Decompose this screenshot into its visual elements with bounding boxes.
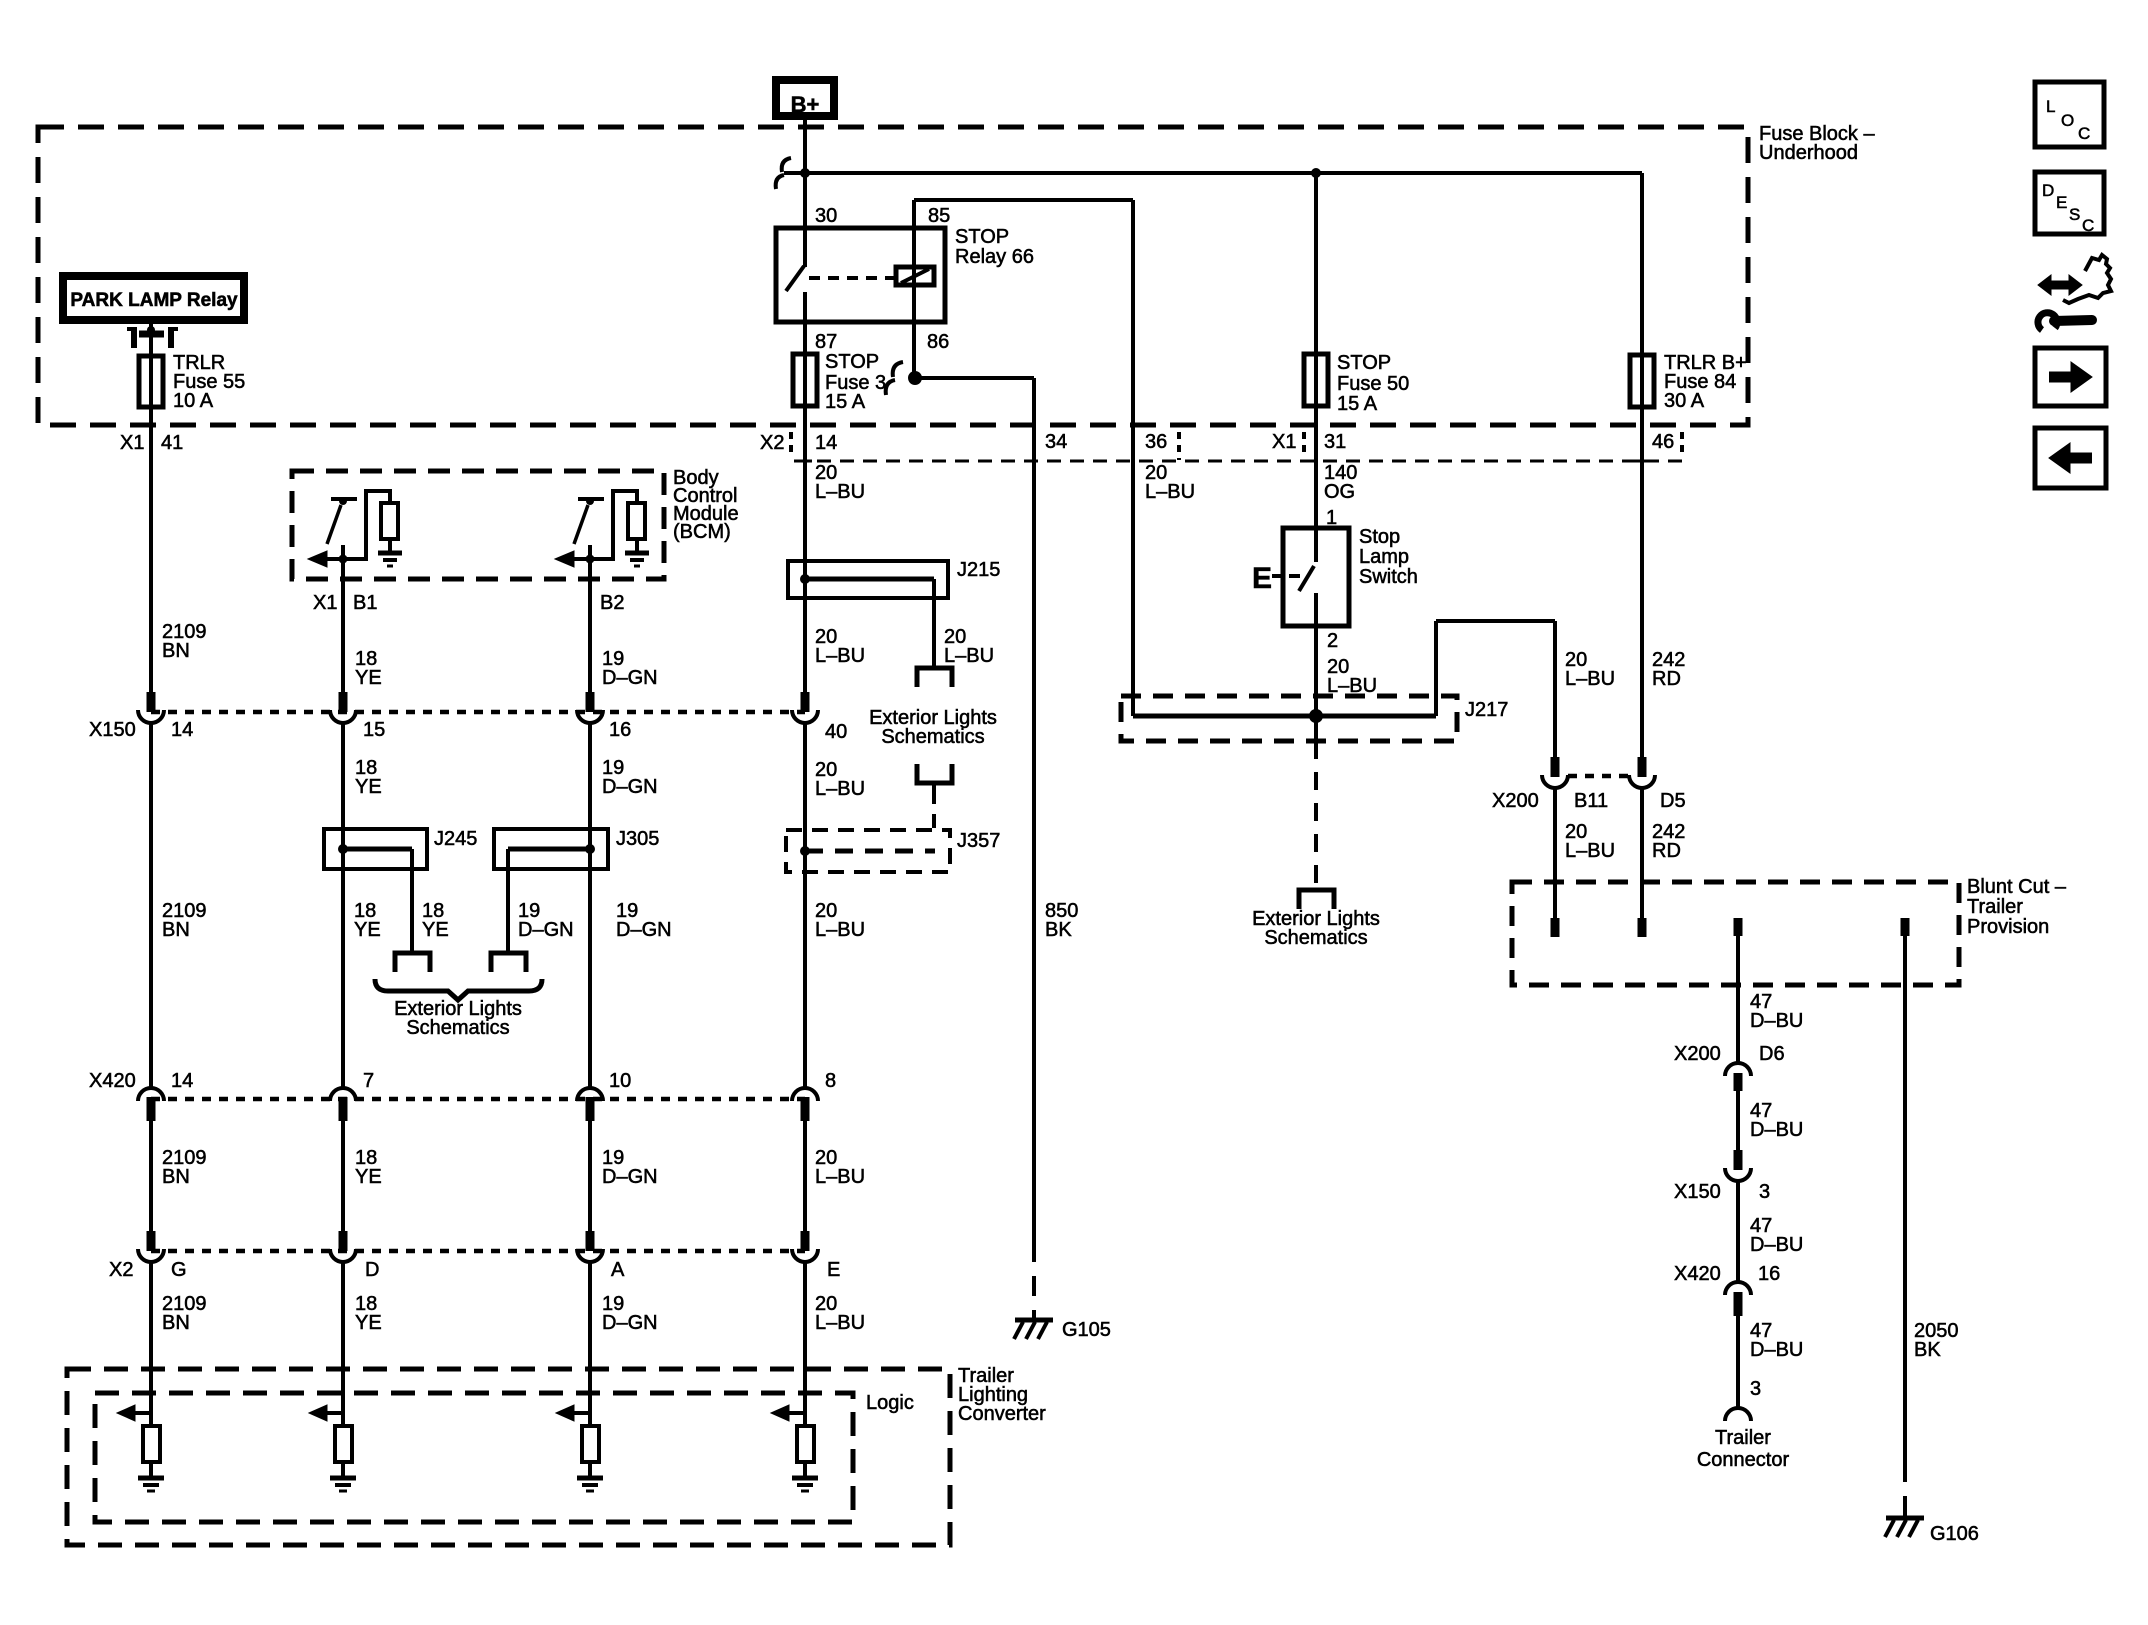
svg-text:L–BU: L–BU xyxy=(1145,481,1195,503)
svg-text:D–GN: D–GN xyxy=(602,667,658,689)
svg-text:YE: YE xyxy=(355,1166,382,1188)
svg-text:Converter: Converter xyxy=(958,1403,1046,1425)
svg-text:B+: B+ xyxy=(791,92,820,117)
svg-text:D–BU: D–BU xyxy=(1750,1010,1803,1032)
svg-text:G: G xyxy=(171,1259,187,1281)
svg-text:L–BU: L–BU xyxy=(1327,675,1377,697)
svg-text:BK: BK xyxy=(1045,919,1072,941)
svg-text:30: 30 xyxy=(815,205,837,227)
svg-text:1: 1 xyxy=(1326,507,1337,529)
svg-text:J217: J217 xyxy=(1465,699,1508,721)
svg-text:L: L xyxy=(2046,97,2055,116)
svg-text:B2: B2 xyxy=(600,592,624,614)
svg-text:Fuse 50: Fuse 50 xyxy=(1337,373,1409,395)
svg-text:X1: X1 xyxy=(313,592,337,614)
svg-text:STOP: STOP xyxy=(955,226,1009,248)
svg-text:E: E xyxy=(1252,562,1272,595)
svg-text:RD: RD xyxy=(1652,840,1681,862)
svg-text:J245: J245 xyxy=(434,828,477,850)
svg-text:Relay 66: Relay 66 xyxy=(955,246,1034,268)
svg-text:YE: YE xyxy=(355,776,382,798)
svg-text:Blunt Cut –: Blunt Cut – xyxy=(1967,876,2067,898)
svg-text:OG: OG xyxy=(1324,481,1355,503)
svg-text:YE: YE xyxy=(354,919,381,941)
svg-text:Trailer: Trailer xyxy=(1715,1427,1771,1449)
svg-text:14: 14 xyxy=(815,432,837,454)
svg-text:15: 15 xyxy=(363,719,385,741)
svg-text:D–BU: D–BU xyxy=(1750,1234,1803,1256)
svg-text:D–GN: D–GN xyxy=(602,1166,658,1188)
svg-text:C: C xyxy=(2082,216,2094,235)
svg-text:36: 36 xyxy=(1145,431,1167,453)
svg-text:J215: J215 xyxy=(957,559,1000,581)
svg-text:X420: X420 xyxy=(89,1070,136,1092)
svg-text:16: 16 xyxy=(1758,1263,1780,1285)
svg-text:D–BU: D–BU xyxy=(1750,1339,1803,1361)
svg-text:D6: D6 xyxy=(1759,1043,1785,1065)
svg-text:Switch: Switch xyxy=(1359,566,1418,588)
svg-text:Stop: Stop xyxy=(1359,526,1400,548)
svg-text:B1: B1 xyxy=(353,592,377,614)
svg-text:YE: YE xyxy=(355,667,382,689)
svg-text:15 A: 15 A xyxy=(825,391,866,413)
svg-text:D–GN: D–GN xyxy=(518,919,574,941)
svg-text:Schematics: Schematics xyxy=(406,1017,509,1039)
svg-text:BK: BK xyxy=(1914,1339,1941,1361)
svg-text:J357: J357 xyxy=(957,830,1000,852)
svg-text:41: 41 xyxy=(161,432,183,454)
svg-text:8: 8 xyxy=(825,1070,836,1092)
svg-text:X1: X1 xyxy=(120,432,144,454)
svg-text:Connector: Connector xyxy=(1697,1449,1790,1471)
svg-text:L–BU: L–BU xyxy=(815,1312,865,1334)
svg-text:BN: BN xyxy=(162,1166,190,1188)
svg-text:STOP: STOP xyxy=(825,351,879,373)
svg-text:YE: YE xyxy=(355,1312,382,1334)
svg-text:RD: RD xyxy=(1652,668,1681,690)
svg-text:Schematics: Schematics xyxy=(1264,927,1367,949)
svg-text:L–BU: L–BU xyxy=(815,919,865,941)
svg-text:46: 46 xyxy=(1652,431,1674,453)
svg-text:G105: G105 xyxy=(1062,1319,1111,1341)
svg-text:D: D xyxy=(2042,181,2054,200)
svg-text:Underhood: Underhood xyxy=(1759,142,1858,164)
svg-text:S: S xyxy=(2069,205,2080,224)
svg-text:X150: X150 xyxy=(1674,1181,1721,1203)
svg-text:7: 7 xyxy=(363,1070,374,1092)
svg-text:B11: B11 xyxy=(1574,790,1608,812)
svg-text:L–BU: L–BU xyxy=(815,645,865,667)
svg-text:86: 86 xyxy=(927,331,949,353)
svg-text:D–BU: D–BU xyxy=(1750,1119,1803,1141)
svg-text:X2: X2 xyxy=(760,432,784,454)
svg-text:16: 16 xyxy=(609,719,631,741)
svg-text:A: A xyxy=(611,1259,625,1281)
svg-text:40: 40 xyxy=(825,721,847,743)
svg-text:85: 85 xyxy=(928,205,950,227)
svg-text:J305: J305 xyxy=(616,828,659,850)
svg-text:STOP: STOP xyxy=(1337,352,1391,374)
svg-text:2: 2 xyxy=(1327,630,1338,652)
svg-text:L–BU: L–BU xyxy=(1565,668,1615,690)
svg-text:BN: BN xyxy=(162,1312,190,1334)
svg-text:D5: D5 xyxy=(1660,790,1686,812)
svg-text:E: E xyxy=(827,1259,840,1281)
svg-text:14: 14 xyxy=(171,719,193,741)
svg-text:10 A: 10 A xyxy=(173,390,214,412)
svg-text:X420: X420 xyxy=(1674,1263,1721,1285)
svg-text:(BCM): (BCM) xyxy=(673,521,731,543)
svg-text:L–BU: L–BU xyxy=(815,1166,865,1188)
svg-text:Lamp: Lamp xyxy=(1359,546,1409,568)
svg-text:BN: BN xyxy=(162,919,190,941)
svg-text:BN: BN xyxy=(162,640,190,662)
svg-text:87: 87 xyxy=(815,331,837,353)
svg-text:Logic: Logic xyxy=(866,1392,914,1414)
svg-text:X2: X2 xyxy=(109,1259,133,1281)
svg-text:D–GN: D–GN xyxy=(602,1312,658,1334)
svg-text:L–BU: L–BU xyxy=(1565,840,1615,862)
svg-text:D: D xyxy=(365,1259,379,1281)
svg-text:X150: X150 xyxy=(89,719,136,741)
svg-text:30 A: 30 A xyxy=(1664,390,1705,412)
svg-text:C: C xyxy=(2078,124,2090,143)
svg-text:X200: X200 xyxy=(1492,790,1539,812)
svg-text:31: 31 xyxy=(1324,431,1346,453)
svg-text:10: 10 xyxy=(609,1070,631,1092)
svg-text:Schematics: Schematics xyxy=(881,726,984,748)
svg-text:L–BU: L–BU xyxy=(944,645,994,667)
svg-text:YE: YE xyxy=(422,919,449,941)
svg-text:E: E xyxy=(2056,193,2067,212)
svg-text:X200: X200 xyxy=(1674,1043,1721,1065)
svg-text:L–BU: L–BU xyxy=(815,481,865,503)
svg-text:D–GN: D–GN xyxy=(616,919,672,941)
svg-text:G106: G106 xyxy=(1930,1523,1979,1545)
svg-text:34: 34 xyxy=(1045,431,1067,453)
svg-text:Provision: Provision xyxy=(1967,916,2049,938)
svg-text:D–GN: D–GN xyxy=(602,776,658,798)
svg-text:14: 14 xyxy=(171,1070,193,1092)
svg-text:X1: X1 xyxy=(1272,431,1296,453)
svg-text:O: O xyxy=(2061,111,2074,130)
svg-text:Trailer: Trailer xyxy=(1967,896,2023,918)
svg-text:PARK LAMP Relay: PARK LAMP Relay xyxy=(70,290,238,311)
svg-text:3: 3 xyxy=(1759,1181,1770,1203)
svg-text:L–BU: L–BU xyxy=(815,778,865,800)
svg-text:3: 3 xyxy=(1750,1378,1761,1400)
svg-text:15 A: 15 A xyxy=(1337,393,1378,415)
